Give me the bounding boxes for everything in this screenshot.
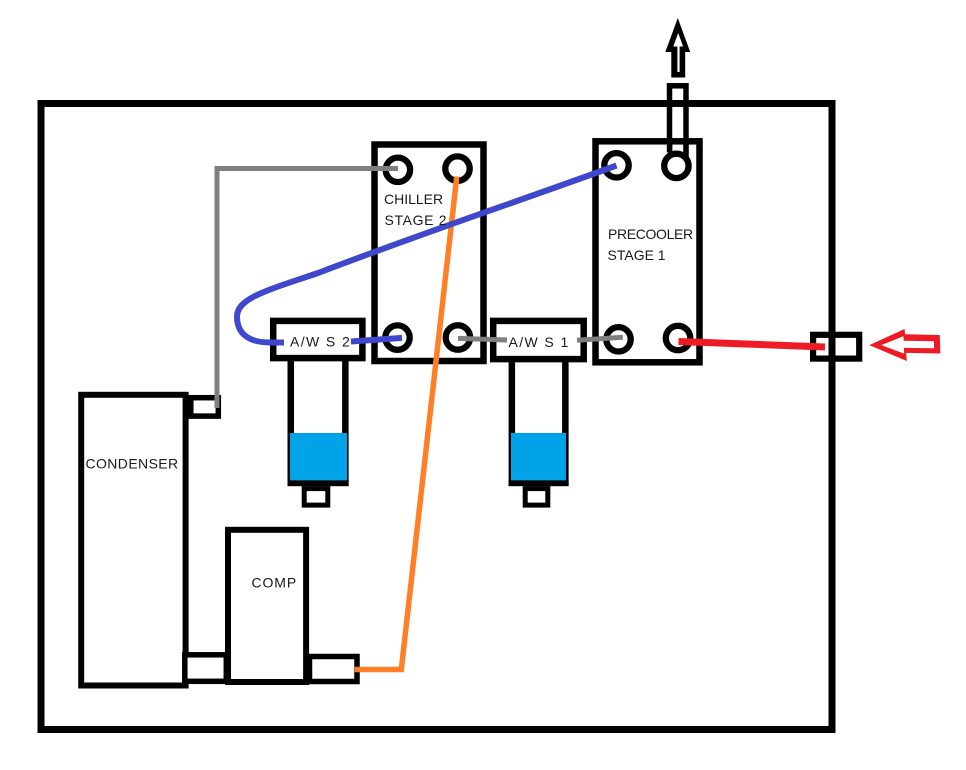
vent arrow inner white [673,33,683,72]
pipe P1 wall left (inside precooler) [667,145,673,153]
port chiller bottom-left [385,325,409,349]
svg-text:A/W S 1: A/W S 1 [509,334,570,350]
port precooler bottom-left [606,327,630,351]
svg-text:COMP: COMP [252,575,298,591]
valve V2 tube left wall [288,358,295,486]
valve V2 tube right wall [342,358,349,486]
vent arrow (up, outlined) [665,18,690,78]
svg-text:PRECOOLER: PRECOOLER [608,226,693,242]
pipe P1 (vent pipe above precooler) [670,86,687,163]
valve V1 bottom band [509,480,569,486]
wire W-orange (comp to chiller) [355,177,457,670]
inlet arrow (left, outlined red) [869,329,940,361]
wire W-gray-2 (chiller to A/W S 1 text) [458,338,507,340]
valve V1 tube left wall [509,358,515,486]
port precooler bottom-right [666,326,690,350]
comp outlet stub [310,657,358,682]
condenser-comp stub [185,655,227,682]
wire W-blue (precooler to A/W S 2) [237,166,617,343]
svg-text:CONDENSER: CONDENSER [86,456,179,472]
port precooler top-left [604,153,628,177]
svg-text:STAGE 2: STAGE 2 [385,212,448,228]
valve V2 liquid (cyan) [290,433,347,480]
inlet port box on frame [813,335,859,359]
A/W S 2 box [273,321,362,358]
A/W S 1 box [493,321,584,359]
chiller stage 2 box [375,145,484,362]
condenser inlet stub [191,398,219,416]
pipe P1 wall right (inside precooler) [683,145,689,158]
wire W-gray-3 (A/W S 1 text to precooler) [577,337,623,340]
comp box [228,530,306,682]
valve V2 stem [304,489,328,506]
svg-text:A/W S 2: A/W S 2 [290,334,351,350]
wire W-gray-1 (chiller to condenser) [217,169,398,409]
port chiller top-left [386,158,410,182]
svg-text:CHILLER: CHILLER [384,191,443,207]
valve V2 bottom band [288,480,349,486]
port chiller top-right [445,156,469,180]
valve V1 tube right wall [562,358,569,486]
port chiller bottom-right [446,325,470,349]
port precooler top-right [664,154,688,178]
svg-text:STAGE 1: STAGE 1 [608,247,666,263]
precooler stage 1 box [596,141,700,362]
inlet arrow inner white [881,336,934,353]
wire W-red (precooler to inlet port) [679,342,826,348]
condenser [81,395,185,686]
wire W-blue segment 2 (A/W S 2 to chiller) [351,338,402,342]
valve V1 stem [525,489,548,506]
enclosure frame [41,104,832,730]
valve V1 liquid (cyan) [511,433,566,480]
